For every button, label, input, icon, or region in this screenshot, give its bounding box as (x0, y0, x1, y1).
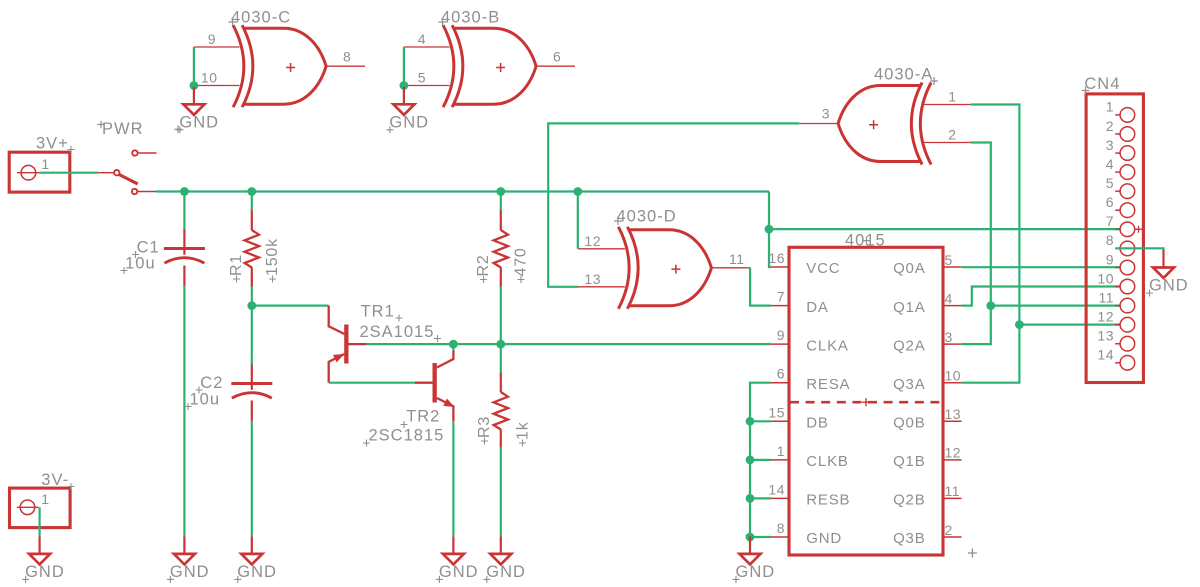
junction Q2A riser x CN4 pin11 (986, 301, 995, 310)
svg-text:1: 1 (41, 491, 49, 507)
svg-text:8: 8 (343, 49, 351, 65)
pin 8 of CN4 (1115, 247, 1120, 249)
pin 7 of CN4 (1115, 228, 1120, 230)
pin 4 Q1A of 4015 (943, 305, 962, 307)
svg-text:2: 2 (948, 127, 956, 143)
transistor TR2 2SC1815 (NPN) (433, 363, 437, 403)
capacitor C2 10u (251, 365, 253, 390)
transistor TR1 2SA1015 (PNP) (344, 325, 348, 364)
junction R1/C2/TR1 (247, 301, 256, 310)
svg-text:GND: GND (486, 563, 526, 581)
svg-text:GND: GND (1149, 277, 1189, 295)
wire junction to CN4 pin 11 (991, 305, 1121, 307)
junction rail at C1 (180, 187, 189, 196)
ground GND under C1 (183, 536, 185, 553)
pin 15 DB of 4015 (770, 420, 789, 422)
svg-text:Q2A: Q2A (893, 337, 925, 354)
svg-text:6: 6 (553, 49, 561, 65)
pin 13 Q0B of 4015 (943, 420, 962, 422)
ground GND under C2 (251, 536, 253, 553)
switch PWR (98, 172, 114, 174)
svg-text:11: 11 (1098, 289, 1114, 305)
capacitor C1 10u (183, 230, 185, 255)
wire 4030-D pin11 to 4015 DA (750, 268, 771, 306)
svg-text:GND: GND (170, 563, 210, 581)
pin 8 output stub of 4030-C (326, 65, 365, 67)
junction RESB row (746, 494, 755, 503)
pin 2 of CN4 (1115, 133, 1120, 135)
pin 14 of CN4 (1115, 362, 1120, 364)
junction Q3A riser x CN4 pin12 (1015, 320, 1024, 329)
junction at 4030-C pin10 (190, 81, 199, 90)
svg-text:10u: 10u (190, 390, 221, 408)
pin 1 CLKB of 4015 (770, 459, 789, 461)
wire Q1A to CN4 pin 10 (962, 287, 1121, 306)
svg-text:Q0B: Q0B (893, 415, 925, 432)
junction CLKB row (746, 456, 755, 465)
svg-text:15: 15 (768, 404, 785, 420)
svg-text:3V+: 3V+ (36, 134, 69, 152)
svg-text:10u: 10u (125, 255, 156, 273)
svg-text:4: 4 (418, 31, 426, 47)
pin 11 Q2B of 4015 (943, 497, 962, 499)
svg-text:4030-C: 4030-C (231, 9, 291, 27)
wire rail to R1 (251, 192, 253, 212)
ground GND under R3 (500, 536, 502, 553)
pin 1 stub of 4030-A (923, 104, 971, 106)
svg-text:GND: GND (736, 563, 776, 581)
connector CN4 (1086, 94, 1143, 383)
ground GND at CN4 pin 8 (1162, 250, 1164, 267)
op-amp gate 4030-A (XOR, mirrored) (838, 83, 931, 165)
svg-text:GND: GND (25, 563, 65, 581)
pin 4 stub of 4030-B (404, 46, 450, 48)
pin 10 stub of 4030-C (194, 85, 240, 87)
svg-text:GND: GND (179, 113, 219, 131)
junction TR2 collector on CLKA wire (449, 340, 458, 349)
pin 5 Q0A of 4015 (943, 266, 962, 268)
wire 4030-A pin3 to 4030-D pin13 (548, 123, 799, 286)
wire Q0A to CN4 pin 9 (962, 266, 1121, 268)
pin 11 output stub of 4030-D (712, 267, 751, 269)
svg-text:2: 2 (945, 522, 953, 538)
svg-text:1: 1 (41, 156, 49, 172)
svg-text:6: 6 (1106, 194, 1114, 210)
ground GND under TR2 (452, 536, 454, 553)
wire TR2 collector to CLKA wire (452, 344, 454, 350)
svg-text:12: 12 (584, 233, 601, 249)
svg-text:4030-D: 4030-D (617, 208, 677, 226)
svg-text:4: 4 (945, 290, 953, 306)
junction R2/R3 on CLKA wire (496, 340, 505, 349)
svg-text:PWR: PWR (102, 120, 144, 138)
wire pin4 to pin5 of 4030-B (403, 47, 405, 86)
pin 12 of CN4 (1115, 324, 1120, 326)
wire junction to R3 (500, 344, 502, 373)
wire main V+ rail (156, 190, 769, 192)
svg-text:150k: 150k (264, 238, 281, 276)
pin 3 Q2A of 4015 (943, 343, 962, 345)
svg-text:Q1B: Q1B (893, 453, 925, 470)
svg-text:3V-: 3V- (41, 471, 69, 489)
pin 6 output stub of 4030-B (536, 65, 575, 67)
wire pin9 to pin10 of 4030-C (193, 47, 195, 86)
svg-text:DA: DA (806, 299, 828, 316)
wire C2 to ground (251, 421, 253, 537)
pin 2 stub of 4030-A (923, 142, 971, 144)
pin 10 of CN4 (1115, 286, 1120, 288)
resistor R2 470 (500, 211, 502, 231)
svg-text:11: 11 (729, 251, 745, 267)
svg-text:CLKB: CLKB (806, 453, 848, 470)
svg-text:9: 9 (208, 31, 216, 47)
svg-text:11: 11 (945, 483, 961, 499)
svg-text:Q1A: Q1A (893, 299, 925, 316)
IC U1 4015 shift register (789, 247, 943, 555)
op-amp gate 4030-D (XOR) (618, 227, 711, 309)
svg-text:12: 12 (1097, 308, 1114, 324)
wire Q2A riser from 4030-A pin 2 (962, 143, 991, 345)
svg-text:12: 12 (945, 445, 962, 461)
junction VCC riser to CN4 pin7 branch (765, 225, 774, 234)
svg-text:4030-A: 4030-A (874, 66, 933, 84)
wire R3 to ground (500, 447, 502, 536)
pin 3 of CN4 (1115, 152, 1120, 154)
svg-text:10: 10 (945, 368, 962, 384)
pin 9 of CN4 (1115, 266, 1120, 268)
wire R1 to junction (251, 286, 253, 305)
battery 3V- supply block (10, 488, 71, 527)
svg-text:9: 9 (1106, 251, 1114, 267)
svg-text:Q0A: Q0A (893, 260, 925, 277)
pin 7 origin mark of CN4 (1135, 228, 1142, 230)
svg-text:TR2: TR2 (406, 408, 440, 426)
junction rail at R2 (496, 187, 505, 196)
svg-text:C2: C2 (200, 374, 223, 392)
wire 3V- pin to ground (38, 507, 40, 536)
junction rail at R1 (247, 187, 256, 196)
resistor R1 150k (251, 211, 253, 231)
ground GND under 3V- (38, 536, 40, 553)
svg-text:2SC1815: 2SC1815 (369, 426, 445, 444)
svg-text:5: 5 (1106, 175, 1114, 191)
svg-text:R3: R3 (476, 416, 493, 438)
svg-text:Q3B: Q3B (893, 530, 925, 547)
op-amp gate 4030-B (XOR) (443, 25, 536, 107)
svg-text:13: 13 (1097, 328, 1114, 344)
svg-text:RESB: RESB (806, 492, 850, 509)
op-amp gate 4030-C (XOR) (233, 25, 326, 107)
svg-text:5: 5 (418, 70, 426, 86)
wire TR1 base to 4015 CLKA (366, 343, 770, 345)
svg-text:13: 13 (945, 406, 962, 422)
svg-text:2SA1015: 2SA1015 (360, 323, 435, 341)
pin 4 of CN4 (1115, 171, 1120, 173)
wire rail to C1 (183, 192, 185, 230)
svg-text:7: 7 (1106, 213, 1114, 229)
svg-text:5: 5 (945, 252, 953, 268)
resistor R3 1k (500, 373, 502, 392)
svg-text:RESA: RESA (806, 376, 850, 393)
svg-text:TR1: TR1 (361, 303, 395, 321)
wire junction to C2 (251, 306, 253, 365)
pin 13 of CN4 (1115, 343, 1120, 345)
pin 3 output stub of 4030-A (799, 123, 838, 125)
ground GND under 4030-B (403, 87, 405, 104)
svg-text:470: 470 (513, 247, 530, 276)
pin 5 of CN4 (1115, 190, 1120, 192)
svg-text:13: 13 (584, 271, 601, 287)
svg-text:6: 6 (777, 366, 785, 382)
svg-text:R2: R2 (475, 254, 492, 276)
svg-text:GND: GND (237, 563, 277, 581)
pin 9 CLKA of 4015 (770, 343, 789, 345)
svg-text:1: 1 (777, 443, 785, 459)
svg-text:16: 16 (768, 250, 785, 266)
svg-text:1k: 1k (514, 421, 531, 440)
pin 9 stub of 4030-C (194, 46, 240, 48)
svg-text:CLKA: CLKA (806, 337, 848, 354)
wire Q3A to riser (962, 325, 1020, 383)
svg-text:1: 1 (1106, 99, 1114, 115)
svg-text:DB: DB (806, 415, 828, 432)
svg-text:4030-B: 4030-B (441, 9, 500, 27)
svg-text:GND: GND (439, 563, 479, 581)
svg-text:8: 8 (777, 520, 785, 536)
svg-text:14: 14 (768, 481, 785, 497)
pin 2 Q3B of 4015 (943, 536, 962, 538)
wire RESA/DB/CLKB/RESB/GND bus of 4015 (750, 383, 771, 537)
ground GND under 4030-C (193, 87, 195, 104)
wire R2 to CLKA wire (500, 286, 502, 344)
svg-text:14: 14 (1097, 347, 1114, 363)
ground GND under 4015 (749, 536, 751, 553)
pin 7 DA of 4015 (770, 305, 789, 307)
wire junction to TR1 collector (252, 305, 329, 307)
svg-text:Q3A: Q3A (893, 376, 925, 393)
pin 14 RESB of 4015 (770, 497, 789, 499)
wire Q3A riser from 4030-A pin 1 (971, 105, 1121, 325)
svg-text:10: 10 (201, 70, 218, 86)
wire rail to 4015 VCC (769, 192, 771, 268)
svg-text:CN4: CN4 (1084, 75, 1120, 93)
svg-text:7: 7 (777, 289, 785, 305)
svg-text:2: 2 (1106, 118, 1114, 134)
battery 3V+ supply block (9, 152, 70, 192)
svg-text:1: 1 (948, 89, 956, 105)
wire C1 to ground (183, 286, 185, 537)
svg-text:R1: R1 (228, 254, 245, 276)
svg-text:3: 3 (1106, 137, 1114, 153)
pin 12 Q1B of 4015 (943, 459, 962, 461)
junction rail at 4030-D pin12 branch (573, 187, 582, 196)
wire battery 3V+ to switch PWR (39, 172, 98, 174)
pin 6 of CN4 (1115, 209, 1120, 211)
junction GND row (746, 533, 755, 542)
junction DB row (746, 417, 755, 426)
pin 5 stub of 4030-B (404, 85, 450, 87)
svg-text:GND: GND (806, 530, 842, 547)
divider dashed line of 4015 (790, 401, 942, 404)
svg-text:GND: GND (389, 113, 429, 131)
wire TR2 emitter to ground (452, 421, 454, 536)
svg-text:VCC: VCC (806, 260, 840, 277)
wire CN4 pin 8 to ground (1115, 248, 1163, 251)
pin 8 GND of 4015 (770, 536, 789, 538)
pin 6 RESA of 4015 (770, 382, 789, 384)
junction at 4030-B pin5 (400, 81, 409, 90)
svg-text:9: 9 (777, 327, 785, 343)
pin 12 stub of 4030-D (578, 248, 625, 250)
pin 10 Q3A of 4015 (943, 382, 962, 384)
pin 16 VCC of 4015 (770, 266, 789, 268)
wire rail to 4030-D pin12 (577, 192, 579, 249)
svg-text:4: 4 (1106, 156, 1114, 172)
svg-text:Q2B: Q2B (893, 492, 925, 509)
svg-text:3: 3 (822, 106, 830, 122)
wire TR1 emitter to TR2 base (329, 382, 415, 384)
pin 13 stub of 4030-D (578, 286, 625, 288)
wire rail to R2 (500, 192, 502, 212)
svg-text:10: 10 (1097, 270, 1114, 286)
pin 1 of CN4 (1115, 114, 1120, 116)
svg-text:8: 8 (1106, 232, 1114, 248)
wire junction to CN4 pin 7 (769, 228, 1120, 230)
pin 11 of CN4 (1115, 305, 1120, 307)
svg-text:3: 3 (945, 329, 953, 345)
